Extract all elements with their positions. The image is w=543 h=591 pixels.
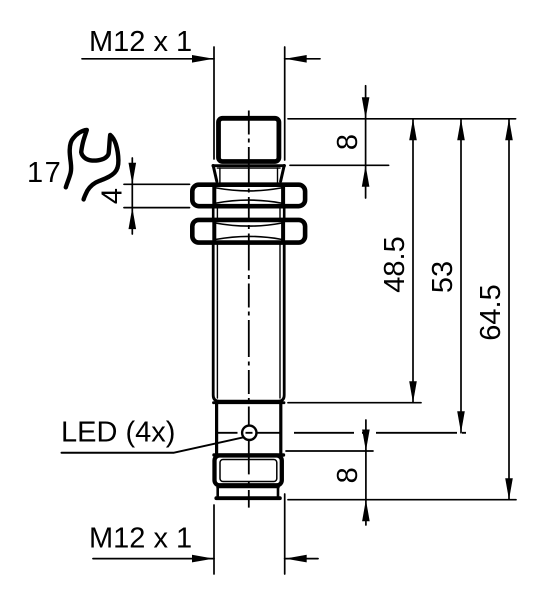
right ext line bottom of head — [290, 164, 389, 166]
right ext line connector top — [286, 450, 373, 452]
svg-text:53: 53 — [427, 261, 459, 293]
connector hex nut — [215, 456, 282, 486]
hex nut 2 — [192, 220, 305, 243]
dim 4 — [131, 158, 133, 234]
dim line top M12 — [82, 58, 214, 60]
dim line bottom M12 — [93, 558, 214, 560]
svg-text:17: 17 — [27, 157, 62, 189]
barrel outer — [213, 243, 284, 402]
dim ext line bottom M12 right — [284, 494, 286, 574]
centerline horizontal through LED — [217, 432, 466, 434]
dim 64.5 — [508, 119, 510, 500]
svg-text:LED (4x): LED (4x) — [61, 417, 175, 449]
dim ext line top M12 left — [213, 47, 215, 159]
flange under head top line — [213, 164, 285, 167]
thread section below flange inner — [219, 168, 221, 183]
wrench symbol — [66, 130, 119, 200]
dim ext line bottom M12 left — [213, 505, 215, 574]
dim 8 bottom — [365, 420, 367, 525]
LED circle — [242, 426, 256, 440]
sensor head M12 thread top — [219, 118, 279, 161]
barrel segment between nuts — [212, 207, 215, 221]
svg-text:M12 x 1: M12 x 1 — [89, 26, 192, 58]
dim 8 top — [365, 86, 367, 198]
dim 53 — [460, 119, 462, 433]
hex nut 1 — [192, 185, 305, 207]
centerline vertical — [248, 111, 250, 425]
right ext line top of sensor — [288, 118, 516, 120]
dim ext line top M12 right — [284, 47, 286, 160]
LED leader line — [62, 437, 244, 452]
flange side right — [281, 166, 285, 182]
flange side left — [213, 166, 217, 182]
svg-text:4: 4 — [97, 188, 129, 204]
svg-text:M12 x 1: M12 x 1 — [89, 523, 192, 555]
LED ring section — [214, 401, 285, 404]
barrel thread inner lines — [216, 243, 218, 399]
svg-text:8: 8 — [332, 467, 364, 483]
centerline vertical lower — [248, 441, 250, 508]
dim 48.5 — [412, 119, 414, 403]
flange inner line — [217, 167, 280, 169]
dim 4 ext lines — [124, 183, 190, 185]
connector tip — [217, 487, 279, 489]
svg-text:48.5: 48.5 — [379, 236, 411, 292]
right ext line sensor bottom — [288, 499, 516, 501]
svg-text:64.5: 64.5 — [475, 284, 507, 340]
right ext line barrel bottom — [288, 402, 421, 404]
svg-text:8: 8 — [332, 134, 364, 150]
